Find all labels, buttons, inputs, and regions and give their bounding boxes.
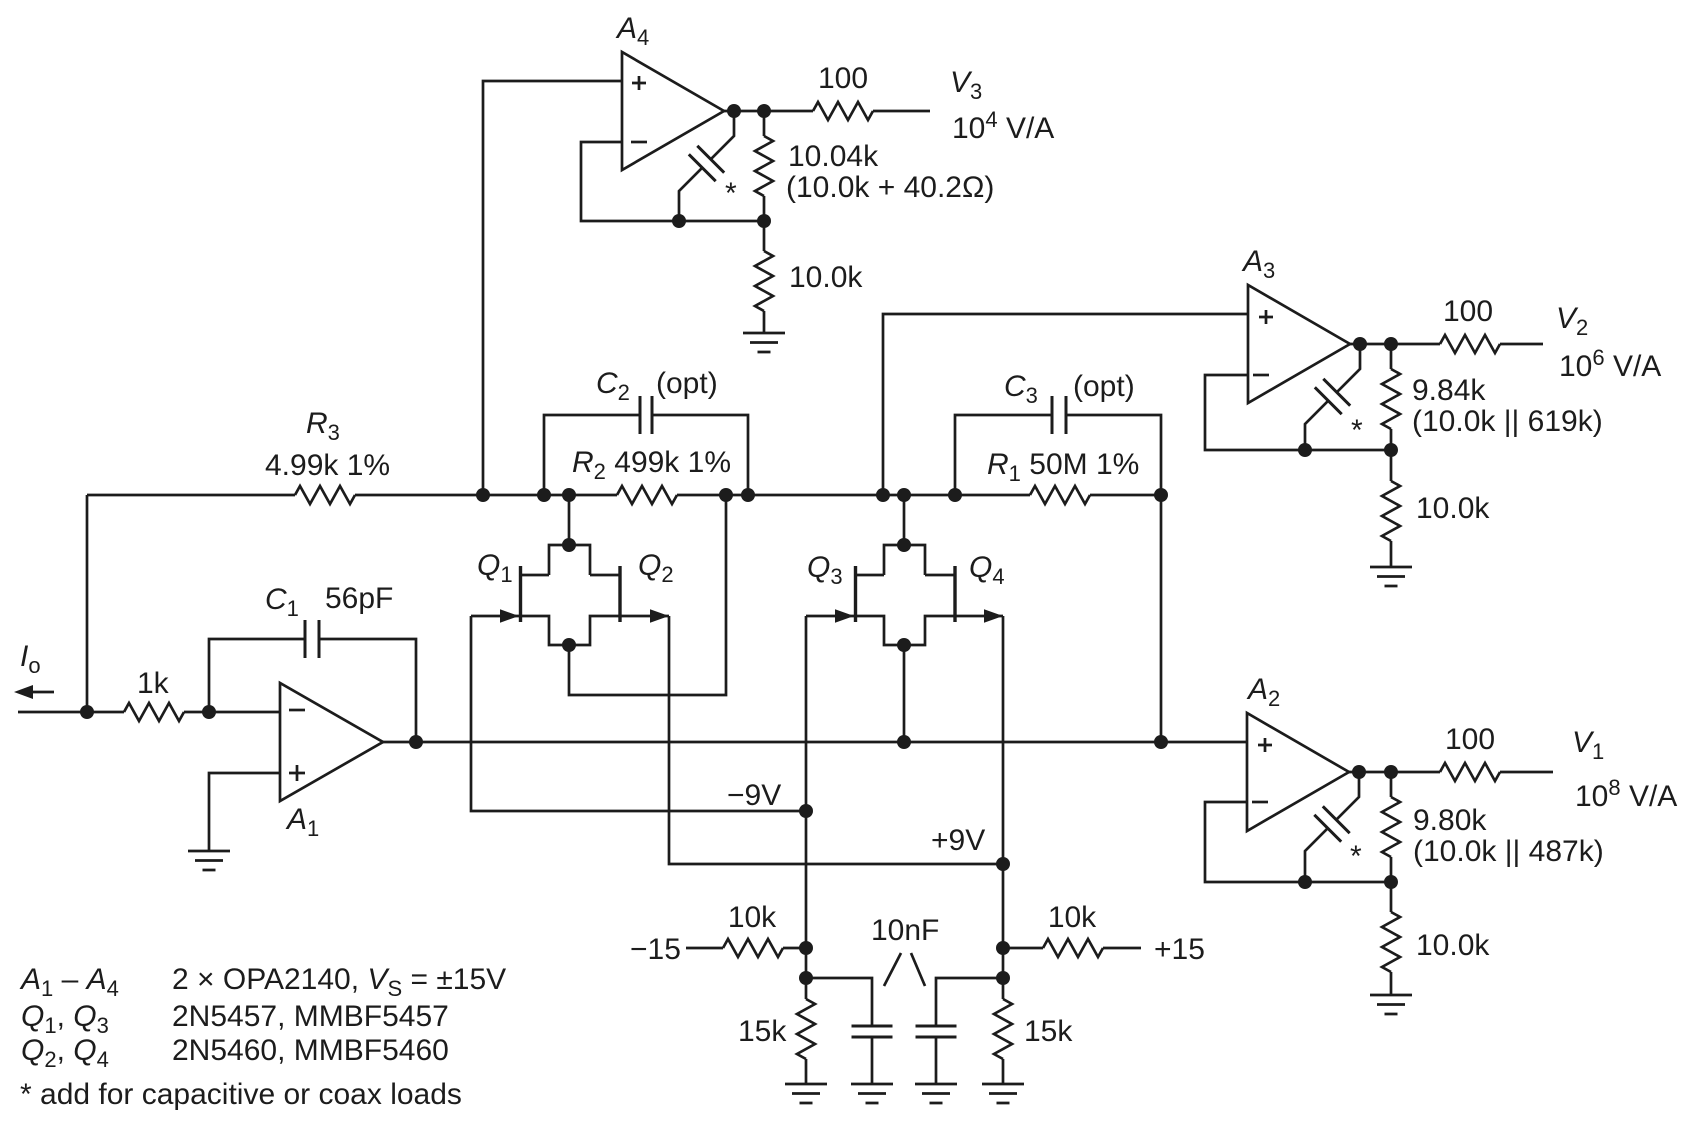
resistor 10.0k A2 divider lower with wires [1390, 882, 1393, 995]
svg-text:2 × OPA2140, VS = ±15V: 2 × OPA2140, VS = ±15V [172, 963, 506, 1001]
node junction input/R3 [80, 705, 94, 719]
svg-text:10k: 10k [1048, 901, 1097, 934]
node junction -15 10k / Q3 gate column [799, 941, 813, 955]
node junction -9V filter [799, 971, 813, 985]
A2 inverting input sign (bottom) [1252, 801, 1268, 804]
wire Q4 gate column down to +15 filter node [1002, 616, 1005, 948]
node junction +15 10k / Q4 gate column [996, 941, 1010, 955]
ground below right 10nF [915, 1084, 957, 1103]
wire A3 output line [1350, 343, 1543, 346]
svg-text:Q2, Q4: Q2, Q4 [21, 1034, 109, 1072]
capacitor 10nF left wires [806, 978, 872, 1084]
capacitor C3 loop wires [955, 415, 1161, 495]
wire Q3/Q4 drain riser from bus [903, 495, 906, 545]
wire Q3/Q4 source down to A1 output line [903, 645, 906, 742]
svg-text:(10.0k + 40.2Ω): (10.0k + 40.2Ω) [786, 171, 994, 204]
svg-text:100: 100 [818, 62, 868, 95]
resistor 10.0k A3 divider lower with wires [1390, 450, 1393, 567]
svg-text:106 V/A: 106 V/A [1559, 345, 1661, 383]
transistor Q4 channel bar [953, 566, 956, 622]
transistor Q3 gate wire and arrow [806, 609, 854, 622]
svg-text:56pF: 56pF [325, 582, 393, 615]
A1 inverting input sign (top) [289, 709, 305, 712]
ground below left 15k [785, 1084, 827, 1103]
svg-text:−15: −15 [630, 933, 681, 966]
node Q1/Q2 common source junction [562, 638, 576, 652]
resistor 100 at A2 output [1440, 763, 1500, 781]
svg-text:−9V: −9V [727, 779, 781, 812]
wire Q1/Q2 source return to bus right of R2 [569, 495, 726, 695]
svg-text:10nF: 10nF [871, 914, 939, 947]
resistor 10k on +15 feed [1043, 939, 1103, 957]
node junction A4 feedback / comp cap bottom [672, 214, 686, 228]
wire A2 feedback from inverting input to divider node [1205, 802, 1391, 882]
svg-text:100: 100 [1445, 723, 1495, 756]
node junction A1 output / R1 right [1154, 735, 1168, 749]
svg-text:9.84k: 9.84k [1412, 374, 1486, 407]
svg-text:(opt): (opt) [1073, 370, 1135, 403]
wire A4 feedback from inverting input to divider node [581, 142, 764, 221]
wire A1 output line to A2 positive input [383, 741, 1247, 744]
capacitor C1 feedback loop wires [209, 639, 416, 742]
node junction A4 output / 10.04k [757, 104, 771, 118]
capacitor C3 plates [1052, 396, 1066, 434]
node junction input/C1/A1 [202, 705, 216, 719]
svg-text:10.04k: 10.04k [788, 140, 879, 173]
wire +9V node to filter junction [1002, 948, 1005, 978]
wire A4 positive input riser from bus [483, 81, 622, 495]
transistor Q2 gate wire and arrow [622, 609, 670, 622]
node junction A2 divider mid [1384, 875, 1398, 889]
transistor Q1 channel bar [519, 566, 522, 622]
svg-text:9.80k: 9.80k [1413, 804, 1487, 837]
wire +15 feed with 10k [1003, 947, 1141, 950]
resistor 15k to ground (left) with wires [805, 978, 808, 1084]
ground at A4 divider [743, 333, 785, 352]
ground below left 10nF [851, 1084, 893, 1103]
resistor 100 at A4 output [813, 102, 873, 120]
svg-text:*: * [1350, 840, 1362, 873]
resistor 15k to ground (right) with wires [1002, 978, 1005, 1084]
wire A3 feedback from inverting input to divider node [1205, 375, 1391, 450]
node junction A4 output / comp cap [727, 104, 741, 118]
svg-text:*: * [1351, 414, 1363, 447]
svg-text:10.0k: 10.0k [789, 261, 863, 294]
svg-text:15k: 15k [738, 1015, 787, 1048]
wire Q1/Q2 common source rail and steps [522, 616, 619, 645]
capacitor A2 compensation (optional, *) tilted with wires [1305, 772, 1359, 882]
node bus junction Q1/Q2 drain riser [562, 488, 576, 502]
svg-text:+9V: +9V [931, 824, 985, 857]
node junction A3 output / 9.84k [1384, 337, 1398, 351]
node bus junction A3 riser [876, 488, 890, 502]
svg-text:* add for capacitive or coax l: * add for capacitive or coax loads [20, 1078, 462, 1111]
wire A1 non-inverting input to ground [209, 773, 280, 851]
node bus junction R1/C3 right [1154, 488, 1168, 502]
A1 non-inverting input sign (bottom) [289, 765, 305, 781]
node junction -9V / Q3 gate column [799, 804, 813, 818]
capacitor A4 compensation (optional, *) tilted with wires [679, 111, 734, 221]
resistor R2 499k [617, 486, 677, 504]
transistor Q1 gate wire and arrow [471, 609, 519, 622]
node bus junction C3 left [948, 488, 962, 502]
node junction A3 divider mid [1384, 443, 1398, 457]
A4 inverting input sign (bottom) [631, 141, 647, 144]
op-amp A4 triangle [622, 52, 724, 170]
wire Q3/Q4 common source rail and steps [857, 616, 954, 645]
capacitor 10nF left plates [852, 1026, 893, 1037]
node bus junction C2 left [537, 488, 551, 502]
node junction A3 feedback / comp cap bottom [1298, 443, 1312, 457]
node junction A2 output / comp cap [1352, 765, 1366, 779]
A3 inverting input sign (bottom) [1253, 374, 1269, 377]
wire -15 feed with 10k [686, 947, 806, 950]
svg-text:15k: 15k [1024, 1015, 1073, 1048]
wire input line from Io terminal to A1 inverting input [18, 711, 280, 714]
node Q3/Q4 common drain junction [897, 538, 911, 552]
node bus junction Q1/Q2 source return [719, 488, 733, 502]
svg-text:(opt): (opt) [656, 367, 718, 400]
wire Q2 gate bias line to +9V node [669, 616, 1003, 864]
resistor R1 50M [1030, 486, 1090, 504]
svg-text:(10.0k || 487k): (10.0k || 487k) [1413, 835, 1604, 868]
resistor 9.84k A3 feedback with wires [1390, 344, 1393, 450]
node junction A2 feedback / comp cap bottom [1298, 875, 1312, 889]
resistor 9.80k A2 feedback with wires [1390, 772, 1393, 882]
capacitor C2 plates [640, 396, 652, 434]
svg-text:*: * [725, 177, 737, 210]
node junction A4 divider mid [757, 214, 771, 228]
wire R1 right node down to A2 positive input line [1160, 495, 1163, 742]
op-amp A1 triangle [280, 683, 383, 801]
node junction +9V / Q4 gate column [996, 857, 1010, 871]
A3 non-inverting input sign (top) [1259, 310, 1273, 324]
node junction A2 output / 9.80k [1384, 765, 1398, 779]
transistor Q4 gate wire and arrow [957, 609, 1004, 622]
node bus junction Q3/Q4 drain riser [897, 488, 911, 502]
wire Q3/Q4 common drain rail and steps [857, 545, 954, 575]
node Q1/Q2 common drain junction [562, 538, 576, 552]
capacitor C2 loop wires [544, 415, 748, 495]
wire A2 output line [1349, 771, 1553, 774]
transistor Q2 channel bar [618, 566, 621, 622]
op-amp A2 triangle [1247, 713, 1349, 831]
resistor R3 4.99k [295, 486, 355, 504]
node junction A3 output / comp cap [1353, 337, 1367, 351]
node junction A1 output / C1 [409, 735, 423, 749]
wire Q1 gate bias line to -9V node [471, 616, 806, 811]
capacitor C1 plates [305, 620, 319, 658]
svg-text:2N5460, MMBF5460: 2N5460, MMBF5460 [172, 1034, 449, 1067]
svg-text:4.99k 1%: 4.99k 1% [265, 449, 390, 482]
wire Q1/Q2 drain riser from bus [568, 495, 571, 545]
node Io input terminal: current output arrow [14, 685, 54, 699]
capacitor A3 compensation (optional, *) tilted with wires [1305, 344, 1360, 450]
svg-text:+15: +15 [1154, 933, 1205, 966]
svg-text:10.0k: 10.0k [1416, 929, 1490, 962]
wire R3 riser from input node up to summing bus [86, 495, 89, 712]
A4 non-inverting input sign (top) [632, 76, 646, 90]
node junction A1 output / Q3,Q4 sources [897, 735, 911, 749]
wire Q1/Q2 common drain rail and steps [522, 545, 619, 575]
wire A4 output line [724, 110, 930, 113]
ground at A1 positive input [188, 851, 230, 870]
svg-text:Q1, Q3: Q1, Q3 [21, 1000, 109, 1038]
resistor 10.04k A4 feedback with connecting wires [763, 111, 766, 221]
capacitor 10nF right wires [936, 978, 1003, 1084]
svg-text:104 V/A: 104 V/A [952, 107, 1054, 145]
op-amp A3 triangle [1248, 285, 1350, 403]
ground below right 15k [982, 1084, 1024, 1103]
svg-text:10k: 10k [728, 901, 777, 934]
resistor 100 at A3 output [1440, 335, 1500, 353]
node bus junction A4 riser [476, 488, 490, 502]
svg-text:(10.0k || 619k): (10.0k || 619k) [1412, 405, 1603, 438]
svg-text:A1 – A4: A1 – A4 [19, 963, 119, 1001]
node Q3/Q4 common source junction [897, 638, 911, 652]
node junction +9V filter [996, 971, 1010, 985]
resistor 10.0k A4 divider lower with wires [763, 221, 766, 333]
svg-text:1k: 1k [137, 667, 170, 700]
ground at A2 divider [1370, 995, 1412, 1014]
A2 non-inverting input sign (top) [1258, 738, 1272, 752]
transistor Q3 channel bar [854, 566, 857, 622]
wire -9V node to filter junction [805, 948, 808, 978]
svg-text:108 V/A: 108 V/A [1575, 775, 1677, 813]
wire summing bus horizontal [87, 494, 1161, 497]
10nF value label with pointer slashes [871, 914, 939, 986]
wire Q3 gate column down to -15 filter node [805, 616, 808, 948]
node bus junction C2 right [741, 488, 755, 502]
wire A3 positive input riser from bus [883, 314, 1248, 495]
resistor 1k input [124, 703, 184, 721]
svg-text:10.0k: 10.0k [1416, 492, 1490, 525]
svg-text:100: 100 [1443, 295, 1493, 328]
capacitor 10nF right plates [916, 1026, 957, 1037]
svg-text:2N5457, MMBF5457: 2N5457, MMBF5457 [172, 1000, 449, 1033]
ground at A3 divider [1370, 567, 1412, 586]
resistor 10k on -15 feed [723, 939, 783, 957]
